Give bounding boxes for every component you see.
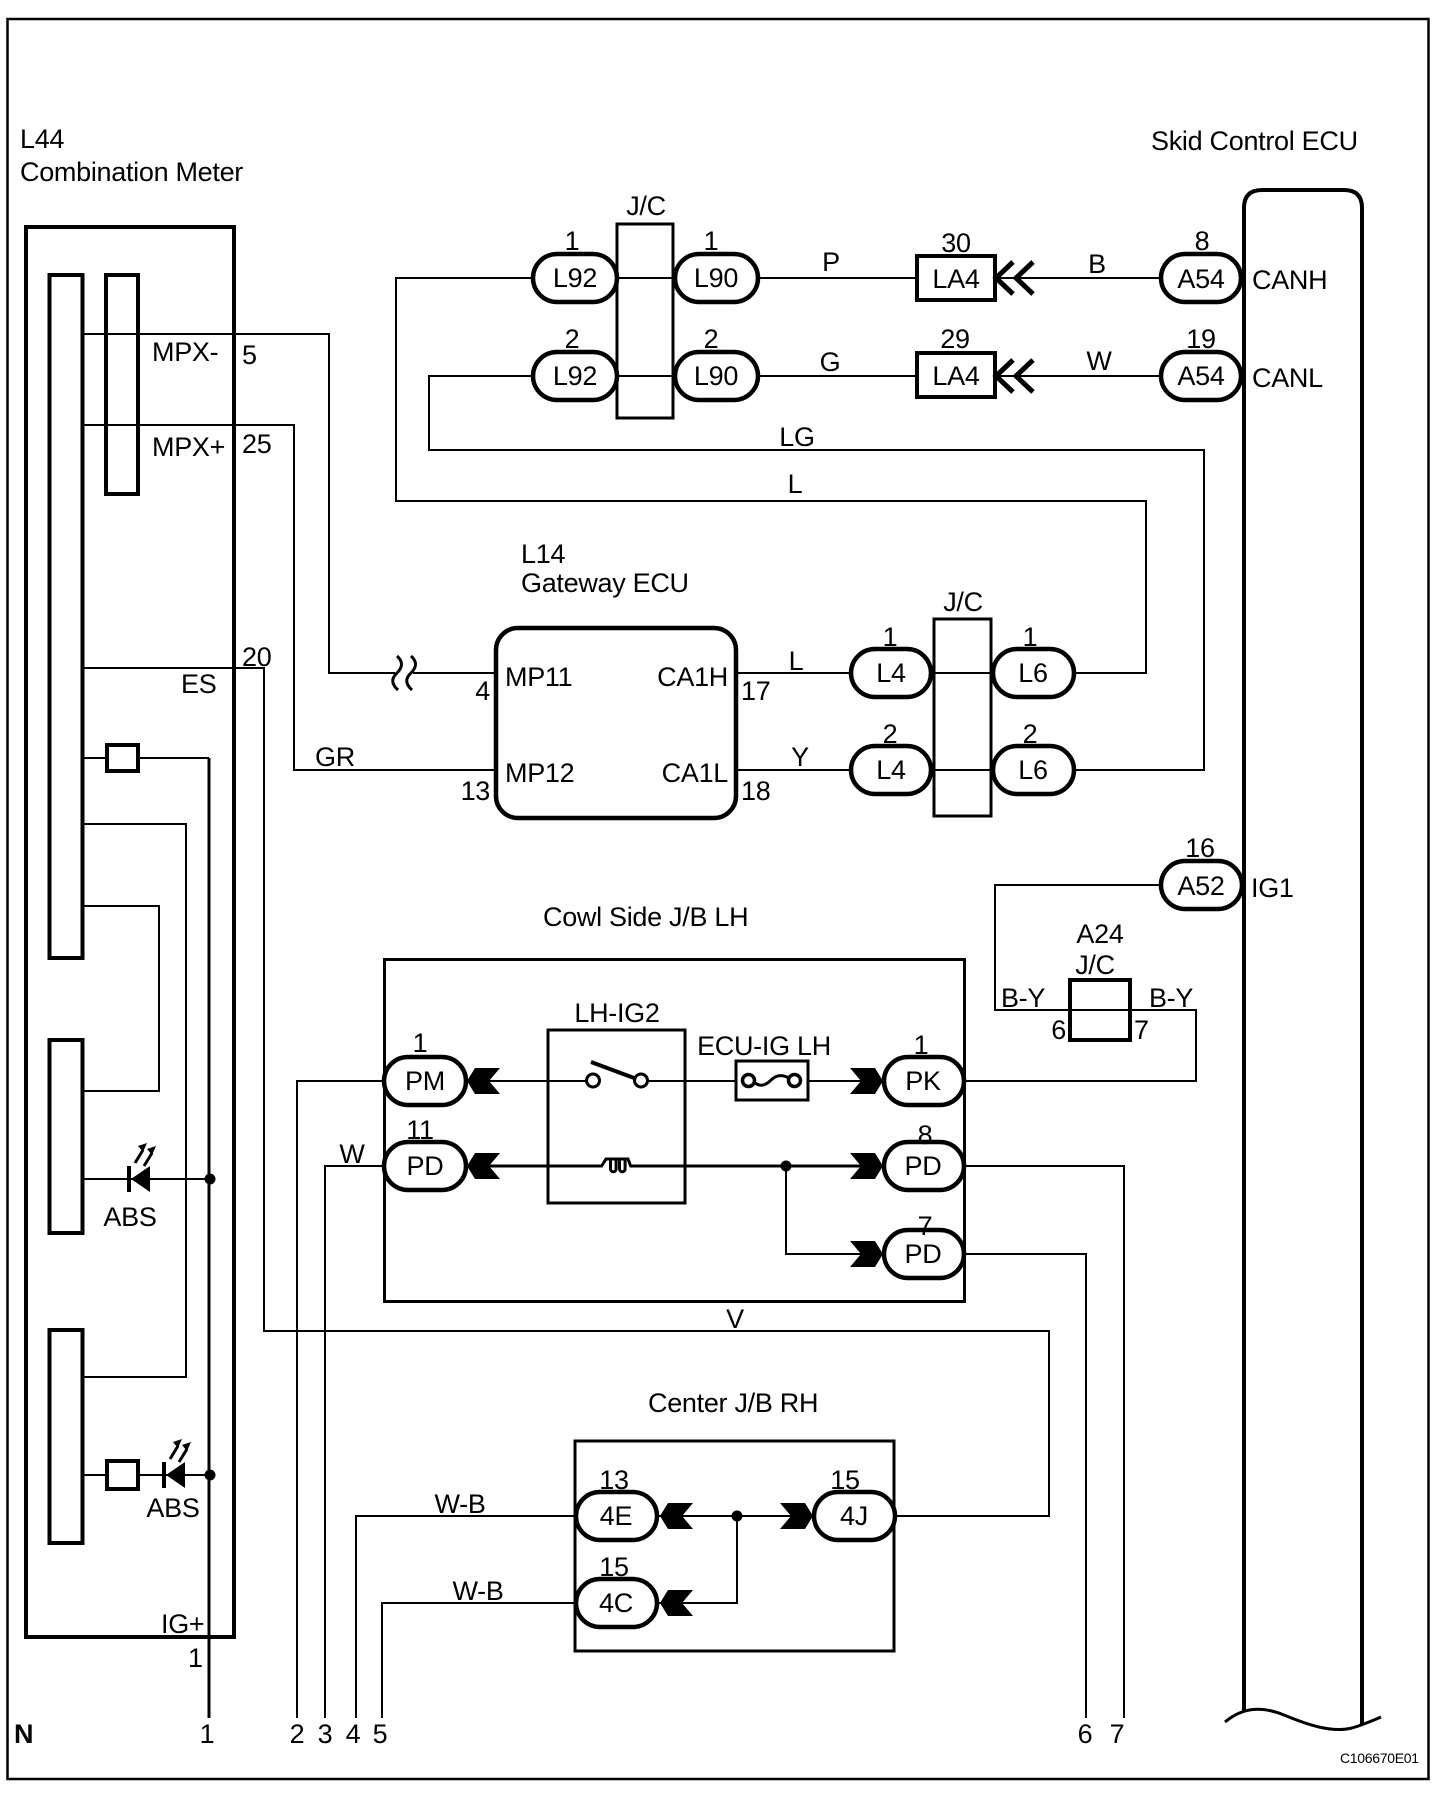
wire PM arrow to switch: [466, 1080, 588, 1082]
svg-text:4C: 4C: [599, 1588, 633, 1618]
wire W-B 4C to bottom 5: [382, 1603, 576, 1718]
svg-text:5: 5: [373, 1719, 388, 1749]
svg-text:1: 1: [1023, 622, 1038, 652]
svg-text:J/C: J/C: [943, 587, 983, 617]
fuse symbol: [743, 1075, 801, 1087]
resistor R2: [107, 1461, 138, 1489]
connector PM pin 1: [384, 1057, 466, 1105]
svg-text:1: 1: [883, 622, 898, 652]
svg-text:2: 2: [704, 324, 719, 354]
svg-text:W: W: [1086, 346, 1112, 376]
wire coil to PD8: [630, 1165, 884, 1168]
svg-text:J/C: J/C: [1075, 950, 1115, 980]
svg-text:W-B: W-B: [434, 1489, 485, 1519]
connector PD pin 7: [884, 1230, 964, 1278]
svg-text:7: 7: [1134, 1015, 1149, 1045]
connector L6 pin 2: [993, 746, 1074, 794]
svg-text:P: P: [822, 247, 840, 277]
svg-text:C106670E01: C106670E01: [1340, 1750, 1419, 1766]
svg-text:30: 30: [941, 228, 970, 258]
switch contact left: [587, 1074, 600, 1087]
junction dot coil row: [781, 1161, 792, 1172]
junction dot center J/B: [732, 1511, 743, 1522]
svg-text:4J: 4J: [840, 1501, 868, 1531]
junction dot LED2: [205, 1470, 216, 1481]
svg-text:Gateway ECU: Gateway ECU: [521, 568, 689, 598]
svg-text:ES: ES: [181, 669, 216, 699]
svg-text:25: 25: [242, 429, 271, 459]
cowl side J/B LH box: [385, 960, 965, 1302]
wire ABS LED 2 row: [83, 1474, 210, 1476]
J/C junction block top: [617, 224, 673, 418]
svg-text:LH-IG2: LH-IG2: [574, 998, 659, 1028]
svg-text:L92: L92: [553, 263, 597, 293]
wire MPX- pin5 to gateway MP11: [83, 334, 395, 673]
wire row2 L92 to LA4: [617, 375, 917, 377]
svg-text:A24: A24: [1076, 919, 1123, 949]
svg-text:ABS: ABS: [146, 1493, 199, 1523]
svg-text:18: 18: [741, 776, 770, 806]
svg-text:1: 1: [413, 1028, 428, 1058]
connector PD pin 8: [884, 1142, 964, 1190]
gateway ECU box L14: [496, 628, 736, 818]
svg-text:L6: L6: [1018, 658, 1047, 688]
meter connector bar 1: [50, 275, 83, 958]
wire L4-2 to L6-2: [931, 769, 993, 771]
svg-text:3: 3: [318, 1719, 333, 1749]
wire CA1H to L4-1: [737, 672, 851, 674]
svg-text:L44: L44: [20, 124, 64, 154]
svg-text:7: 7: [918, 1211, 933, 1241]
wire CA1L to L4-2: [737, 769, 851, 771]
svg-text:1: 1: [914, 1030, 929, 1060]
svg-text:17: 17: [741, 676, 770, 706]
svg-text:N: N: [14, 1719, 33, 1749]
svg-text:13: 13: [461, 776, 490, 806]
svg-text:4: 4: [475, 676, 490, 706]
svg-text:MPX+: MPX+: [152, 432, 225, 462]
LH-IG2 relay box: [548, 1030, 685, 1203]
svg-text:16: 16: [1185, 833, 1214, 863]
switch blade: [591, 1062, 634, 1078]
svg-text:Y: Y: [791, 742, 809, 772]
wire junction to PD7: [786, 1166, 884, 1254]
svg-text:1: 1: [565, 226, 580, 256]
wire switch to PK: [646, 1080, 884, 1082]
arrow into 4E: [660, 1503, 693, 1529]
relay coil: [601, 1159, 631, 1172]
svg-text:A54: A54: [1177, 264, 1224, 294]
center J/B RH box: [575, 1441, 894, 1651]
svg-text:A54: A54: [1177, 361, 1224, 391]
A24 J/C junction block: [1070, 980, 1130, 1040]
switch contact right: [635, 1074, 648, 1087]
svg-text:W: W: [339, 1139, 365, 1169]
wire PM to bottom 2: [297, 1081, 384, 1718]
wire PD7 to bottom 6: [963, 1254, 1086, 1718]
connector PD pin 11: [384, 1142, 466, 1190]
wire PD11 coil row to PD8: [466, 1165, 602, 1168]
svg-text:Cowl Side J/B LH: Cowl Side J/B LH: [543, 902, 748, 932]
wire 4C junction branch: [657, 1516, 737, 1603]
connector 4C pin 15: [576, 1579, 657, 1627]
arrow into PM: [467, 1068, 500, 1094]
svg-text:GR: GR: [315, 742, 355, 772]
svg-text:CANL: CANL: [1252, 363, 1323, 393]
chevron arrows row 1: [996, 262, 1033, 294]
svg-text:PD: PD: [905, 1151, 942, 1181]
svg-text:ECU-IG LH: ECU-IG LH: [697, 1031, 831, 1061]
connector 4E pin 13: [576, 1492, 657, 1540]
svg-text:CA1L: CA1L: [662, 758, 729, 788]
arrow into 4C: [660, 1590, 693, 1616]
combination meter box L44: [26, 227, 234, 1637]
svg-text:4: 4: [346, 1719, 361, 1749]
arrow into PD7: [850, 1241, 883, 1267]
svg-text:J/C: J/C: [626, 191, 666, 221]
svg-text:8: 8: [1195, 226, 1210, 256]
svg-text:L90: L90: [694, 361, 738, 391]
svg-text:2: 2: [565, 324, 580, 354]
svg-text:CANH: CANH: [1252, 265, 1327, 295]
svg-text:CA1H: CA1H: [657, 662, 728, 692]
svg-text:7: 7: [1110, 1719, 1125, 1749]
wire A52 to A24 J/C to PK: [963, 885, 1196, 1081]
connector L92 pin 2: [533, 352, 617, 400]
connector L90 pin 1: [675, 254, 758, 302]
svg-text:15: 15: [599, 1552, 628, 1582]
svg-text:L: L: [788, 469, 803, 499]
LED ABS 1: [129, 1143, 156, 1192]
wire L92-2 left / LG wire / L6-2 right: [429, 376, 1204, 770]
connector A52 pin 16: [1161, 861, 1242, 909]
svg-text:W-B: W-B: [452, 1576, 503, 1606]
wire W-B 4E to bottom 4: [356, 1516, 576, 1718]
svg-text:PM: PM: [405, 1066, 445, 1096]
wire L4-1 to L6-1: [931, 672, 993, 674]
svg-text:11: 11: [406, 1115, 433, 1145]
svg-text:L4: L4: [876, 755, 906, 785]
wire row1 L92 to LA4: [617, 277, 917, 279]
arrow into PK: [850, 1068, 883, 1094]
connector L4 pin 2: [851, 746, 931, 794]
svg-text:V: V: [726, 1304, 744, 1334]
svg-text:Combination Meter: Combination Meter: [20, 157, 243, 187]
svg-text:IG+: IG+: [161, 1609, 204, 1639]
svg-text:G: G: [820, 347, 841, 377]
wire W PD11 to bottom 3: [325, 1166, 384, 1718]
svg-text:L6: L6: [1018, 755, 1047, 785]
svg-text:5: 5: [242, 340, 257, 370]
wire meter resistor IG+ to bottom 1: [83, 757, 209, 759]
meter connector bar 4: [50, 1330, 83, 1543]
svg-text:Skid Control ECU: Skid Control ECU: [1151, 126, 1358, 156]
svg-text:MPX-: MPX-: [152, 337, 218, 367]
wire MPX+ pin25 to gateway MP12: [83, 425, 494, 770]
svg-text:1: 1: [704, 226, 719, 256]
wire meter connector bracket B: [83, 824, 186, 1377]
J/C junction block middle: [934, 619, 991, 816]
svg-text:1: 1: [200, 1719, 215, 1749]
connector L4 pin 1: [851, 649, 931, 697]
svg-text:2: 2: [1023, 719, 1038, 749]
svg-text:4E: 4E: [600, 1501, 632, 1531]
junction dot LED1: [205, 1174, 216, 1185]
resistor R1: [107, 745, 138, 771]
svg-text:L92: L92: [553, 361, 597, 391]
svg-text:29: 29: [940, 324, 969, 354]
fuse box ECU-IG LH: [736, 1061, 808, 1100]
arrow into 4J: [780, 1503, 813, 1529]
arrow into PD8: [850, 1153, 883, 1179]
wire ES pin20 to V to 4J: [83, 668, 1049, 1516]
svg-text:A52: A52: [1177, 871, 1224, 901]
wire meter connector bracket A: [83, 906, 159, 1091]
wire row2 LA4 to A54: [995, 375, 1161, 377]
svg-text:8: 8: [918, 1120, 933, 1150]
LED ABS 2: [164, 1439, 191, 1488]
svg-text:B-Y: B-Y: [1001, 983, 1045, 1013]
svg-text:6: 6: [1078, 1719, 1093, 1749]
wire row1 LA4 to A54: [995, 277, 1161, 279]
connector L90 pin 2: [675, 352, 758, 400]
svg-text:Center J/B RH: Center J/B RH: [648, 1388, 818, 1418]
svg-text:LA4: LA4: [932, 361, 979, 391]
svg-text:15: 15: [830, 1465, 859, 1495]
connector A54 pin 19: [1161, 352, 1241, 400]
svg-text:L14: L14: [521, 539, 565, 569]
svg-text:PK: PK: [905, 1066, 941, 1096]
svg-text:PD: PD: [407, 1151, 444, 1181]
connector L6 pin 1: [993, 649, 1074, 697]
chevron arrows row 2: [996, 360, 1033, 392]
svg-text:1: 1: [188, 1643, 203, 1673]
svg-text:13: 13: [599, 1465, 628, 1495]
svg-text:20: 20: [242, 642, 271, 672]
skid control ECU outline: [1244, 190, 1362, 1724]
svg-text:L: L: [789, 646, 804, 676]
connector 4J pin 15: [814, 1492, 895, 1540]
wire break squiggle on MP11 wire: [393, 656, 416, 690]
wire L92-1 left / L wire / L6-1 right: [396, 278, 1146, 673]
skid control ECU break squiggle: [1225, 1709, 1381, 1729]
connector L92 pin 1: [533, 254, 617, 302]
wire 4E to 4J: [657, 1515, 814, 1517]
connector PK pin 1: [884, 1057, 964, 1105]
svg-text:L4: L4: [876, 658, 906, 688]
svg-text:IG1: IG1: [1251, 873, 1294, 903]
svg-text:2: 2: [290, 1719, 305, 1749]
svg-text:19: 19: [1186, 324, 1215, 354]
svg-text:MP11: MP11: [505, 662, 572, 692]
svg-text:MP12: MP12: [505, 758, 574, 788]
svg-text:ABS: ABS: [103, 1202, 156, 1232]
meter connector bar 2: [106, 275, 138, 494]
svg-text:6: 6: [1051, 1015, 1066, 1045]
connector A54 pin 8: [1161, 254, 1241, 302]
wire ABS LED 1 row: [83, 1178, 210, 1180]
arrow into PD11: [467, 1153, 500, 1179]
connector LA4 pin 30: [917, 256, 995, 300]
svg-text:LA4: LA4: [932, 264, 979, 294]
svg-text:B: B: [1088, 249, 1106, 279]
svg-text:L90: L90: [694, 263, 738, 293]
svg-text:B-Y: B-Y: [1149, 983, 1193, 1013]
svg-text:2: 2: [883, 719, 898, 749]
svg-text:PD: PD: [905, 1239, 942, 1269]
connector LA4 pin 29: [917, 353, 995, 397]
meter connector bar 3: [50, 1040, 83, 1233]
wire PD8 to bottom 7: [963, 1166, 1124, 1718]
svg-text:LG: LG: [779, 422, 814, 452]
